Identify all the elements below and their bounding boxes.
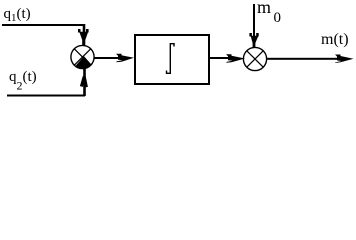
wire integrator to multiplier M2 (210, 57, 228, 59)
arrowhead barbs mid stem q2 (81, 77, 86, 88)
wire multiplier M1 to integrator (94, 57, 120, 59)
wire q1 vertical drop (83, 24, 85, 32)
multiplier M1 X diagonal NE-SW (74, 49, 90, 65)
wire q2 horizontal (7, 95, 85, 97)
output arrowhead (base notch) (336, 60, 342, 62)
arrowhead into multiplier M2 top (right shoulder) (256, 33, 259, 37)
arrowhead into integrator (solid) (116, 54, 134, 63)
arrowhead into multiplier M1 top (mass) (79, 32, 88, 46)
multiplier M2 X diagonal NE-SW (247, 51, 263, 67)
arrowhead into multiplier M1 top (right shoulder) (86, 29, 89, 33)
arrowhead into multiplier M1 top (stem) (83, 24, 86, 33)
integrator box U1 (135, 35, 209, 84)
wire q2 vertical rise (83, 68, 86, 96)
arrowhead into integrator (base notch) (117, 60, 123, 62)
wire m0 vertical (253, 4, 255, 34)
integral sign (167, 44, 175, 74)
arrowhead into multiplier M2 top (stem link) (253, 33, 255, 37)
multiplier M1 X diagonal NW-SE (74, 49, 90, 65)
label q1(t) (4, 6, 31, 24)
arrowhead into multiplier M1 top (left shoulder) (78, 29, 81, 33)
output arrowhead (solid) (335, 55, 354, 64)
arrowhead into multiplier M2 top (left shoulder) (249, 33, 252, 37)
multiplier M2 X diagonal NW-SE (247, 51, 263, 67)
label m0 (257, 0, 281, 27)
wire multiplier M2 to output (266, 58, 338, 60)
arrowhead into multiplier M2 left (solid) (226, 54, 245, 63)
wire q1 horizontal (2, 24, 84, 26)
arrowhead into multiplier M2 top (mass) (251, 36, 259, 48)
multiplier M2 circle (243, 47, 266, 70)
multiplier M1 circle (71, 45, 94, 68)
label q2(t) (9, 69, 37, 94)
arrowhead into multiplier M1 bottom (solid wedge) (76, 56, 92, 68)
arrowhead into multiplier M2 left (base notch) (227, 60, 233, 62)
label m(t) (321, 31, 349, 49)
